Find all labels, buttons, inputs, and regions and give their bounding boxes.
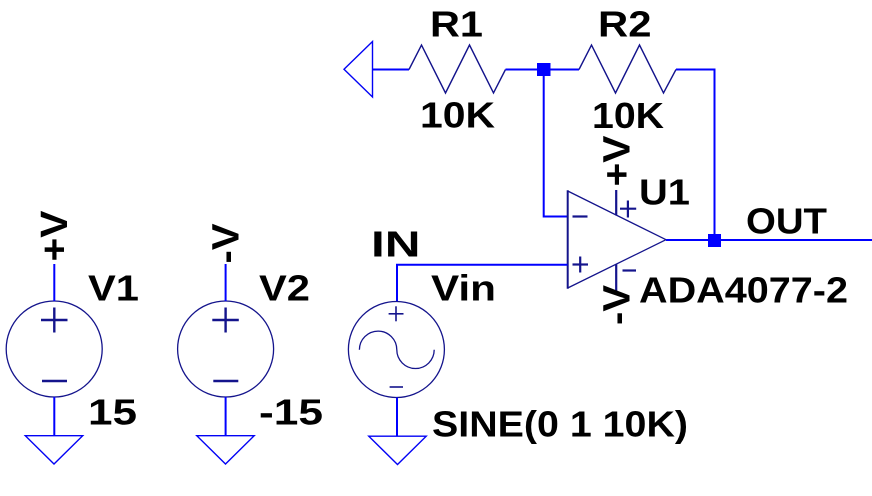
wire V2 top [225, 264, 227, 301]
pin V+ supply stub [615, 190, 617, 216]
wire op-amp output to right edge [666, 239, 872, 241]
voltage source Vin (sine) [348, 302, 444, 398]
junction node OUT [708, 234, 721, 247]
svg-text:10K: 10K [592, 95, 664, 136]
svg-text:+V: +V [597, 135, 639, 187]
voltage source V2 [178, 301, 274, 397]
svg-text:OUT: OUT [746, 201, 827, 242]
wire R1 left [373, 69, 410, 71]
plus mark non-inverting input [573, 263, 589, 265]
svg-text:10K: 10K [420, 95, 495, 136]
minus mark inverting input [573, 215, 588, 217]
junction node (inverting input net) [537, 63, 551, 76]
svg-text:-15: -15 [259, 392, 323, 433]
wire V1 bottom [53, 397, 55, 436]
wire V2 bottom [225, 397, 227, 436]
wire IN from Vin to op-amp non-inverting input [397, 265, 568, 302]
op-amp U1 triangle [568, 190, 666, 292]
svg-text:Vin: Vin [431, 268, 496, 309]
svg-text:V1: V1 [88, 268, 139, 309]
wire Vin bottom [396, 398, 398, 437]
ground under V1 [25, 436, 82, 464]
wire V1 top [53, 264, 55, 301]
svg-text:IN: IN [371, 224, 421, 265]
svg-text:15: 15 [88, 392, 137, 433]
ground under V2 [197, 436, 254, 464]
svg-text:U1: U1 [639, 172, 690, 213]
svg-text:ADA4077-2: ADA4077-2 [639, 270, 848, 311]
wire junction down to op-amp inverting input [544, 70, 568, 217]
resistor R2 [579, 45, 676, 93]
svg-text:R1: R1 [430, 4, 483, 45]
svg-text:R2: R2 [598, 4, 652, 45]
svg-text:V2: V2 [259, 268, 310, 309]
ground under Vin [369, 436, 426, 464]
wire R2 right corner down to OUT node [676, 70, 715, 241]
wire R1 right to junction to R2 [506, 69, 580, 71]
resistor R1 [409, 45, 506, 93]
pin V- supply stub [615, 264, 617, 292]
svg-text:-V: -V [597, 284, 639, 325]
svg-text:+V: +V [34, 210, 76, 262]
voltage source V1 [6, 301, 102, 397]
svg-text:SINE(0 1 10K): SINE(0 1 10K) [432, 404, 688, 445]
ground (left arrow) at R1 left [344, 42, 373, 98]
sine symbol [359, 331, 434, 368]
svg-text:-V: -V [206, 223, 248, 264]
